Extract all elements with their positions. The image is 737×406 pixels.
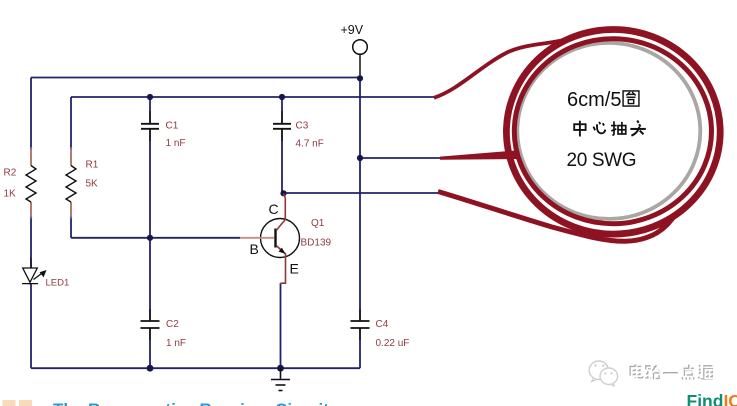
svg-text:The Regenerative Receiver Circ: The Regenerative Receiver Circuit: [53, 400, 329, 406]
svg-text:BD139: BD139: [301, 238, 332, 249]
svg-text:6cm/5: 6cm/5: [567, 89, 621, 111]
svg-text:C2: C2: [166, 319, 179, 330]
svg-text:E: E: [290, 261, 299, 277]
svg-text:C4: C4: [376, 319, 389, 330]
svg-text:R2: R2: [4, 168, 17, 179]
svg-text:5K: 5K: [86, 179, 99, 190]
svg-text:0.22 uF: 0.22 uF: [376, 338, 410, 349]
svg-text:C3: C3: [296, 121, 309, 132]
svg-text:Q1: Q1: [311, 218, 325, 229]
svg-text:C1: C1: [166, 121, 179, 132]
svg-text:4.7 nF: 4.7 nF: [296, 139, 324, 150]
svg-text:B: B: [250, 241, 259, 257]
svg-text:1 nF: 1 nF: [166, 338, 186, 349]
svg-text:+9V: +9V: [341, 23, 364, 37]
svg-text:C: C: [269, 201, 279, 217]
svg-text:1K: 1K: [4, 189, 17, 200]
svg-text:FindIC: FindIC: [687, 391, 737, 406]
svg-text:R1: R1: [86, 160, 99, 171]
svg-text:20 SWG: 20 SWG: [567, 150, 637, 171]
svg-text:1 nF: 1 nF: [166, 138, 186, 149]
svg-text:LED1: LED1: [46, 278, 70, 289]
